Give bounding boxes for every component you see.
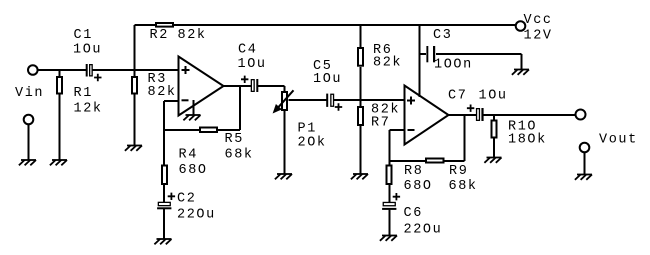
- svg-text:C2: C2: [177, 192, 196, 207]
- svg-text:1Ou: 1Ou: [238, 57, 267, 72]
- svg-text:C1: C1: [74, 28, 93, 43]
- svg-text:R1: R1: [74, 86, 93, 101]
- svg-text:2Ok: 2Ok: [298, 136, 327, 151]
- svg-text:Vout: Vout: [599, 132, 638, 147]
- svg-text:12k: 12k: [74, 102, 103, 117]
- svg-text:82k: 82k: [148, 85, 177, 100]
- svg-text:C6: C6: [404, 206, 423, 221]
- svg-text:R8: R8: [404, 164, 423, 179]
- svg-text:1Ou: 1Ou: [73, 43, 102, 58]
- svg-text:R9: R9: [449, 164, 468, 179]
- svg-text:C3: C3: [433, 28, 452, 43]
- svg-text:1OOn: 1OOn: [434, 58, 473, 73]
- svg-text:P1: P1: [298, 122, 317, 137]
- svg-text:1Ou: 1Ou: [479, 89, 508, 104]
- svg-text:22Ou: 22Ou: [404, 223, 443, 238]
- svg-text:68k: 68k: [225, 148, 254, 163]
- svg-text:68O: 68O: [404, 179, 433, 194]
- svg-text:R7: R7: [371, 116, 390, 131]
- svg-text:Vcc: Vcc: [524, 13, 553, 28]
- svg-text:68O: 68O: [179, 163, 208, 178]
- svg-text:18Ok: 18Ok: [508, 133, 547, 148]
- svg-text:C4: C4: [238, 43, 257, 58]
- svg-text:82k: 82k: [373, 56, 402, 71]
- svg-text:R2: R2: [150, 28, 169, 43]
- svg-text:C7: C7: [448, 89, 467, 104]
- svg-text:82k: 82k: [178, 28, 207, 43]
- svg-text:22Ou: 22Ou: [177, 208, 216, 223]
- svg-text:12V: 12V: [524, 29, 553, 44]
- svg-text:68k: 68k: [449, 179, 478, 194]
- svg-text:1Ou: 1Ou: [313, 72, 342, 87]
- svg-text:R4: R4: [179, 148, 198, 163]
- svg-text:Vin: Vin: [15, 86, 44, 101]
- svg-text:R5: R5: [225, 132, 244, 147]
